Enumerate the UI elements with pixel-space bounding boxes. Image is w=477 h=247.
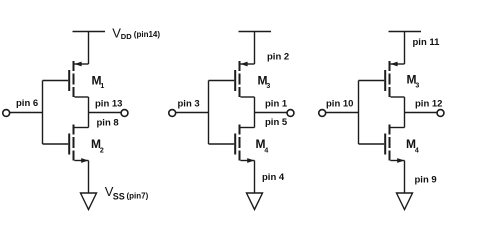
label M3 bbox=[258, 73, 271, 90]
ground symbol bbox=[397, 193, 413, 210]
label M4 (inverter 3) bbox=[406, 137, 419, 155]
input terminal circle bbox=[3, 110, 10, 117]
label M1 bbox=[92, 73, 105, 90]
wire drain junction (output node) bbox=[254, 97, 256, 128]
svg-text:pin 9: pin 9 bbox=[415, 175, 437, 186]
transistor M1 (PMOS) bbox=[43, 61, 89, 97]
svg-text:pin 5: pin 5 bbox=[265, 117, 288, 128]
wire drain junction (output node) bbox=[88, 97, 90, 128]
wire gate riser (joins both gates) bbox=[358, 81, 360, 145]
output terminal circle bbox=[121, 110, 128, 117]
input terminal circle bbox=[319, 110, 326, 117]
wire output node to output terminal bbox=[255, 112, 288, 114]
wire input terminal to gate riser bbox=[325, 112, 358, 114]
label VDD (pin14) bbox=[112, 26, 160, 41]
wire bottom transistor source to ground bbox=[88, 161, 90, 194]
svg-text:pin 6: pin 6 bbox=[16, 98, 38, 109]
wire gate riser (joins both gates) bbox=[208, 81, 210, 145]
svg-text:pin 1: pin 1 bbox=[265, 98, 288, 109]
output terminal circle bbox=[437, 110, 444, 117]
transistor M3 (PMOS) bbox=[209, 61, 255, 97]
wire VDD rail down to top transistor source bbox=[88, 32, 90, 65]
svg-text:2: 2 bbox=[100, 148, 104, 155]
wire VDD rail down to top transistor source bbox=[254, 32, 256, 65]
svg-text:4: 4 bbox=[264, 148, 268, 155]
svg-text:4: 4 bbox=[415, 148, 419, 155]
svg-text:3: 3 bbox=[415, 83, 419, 90]
wire input terminal to gate riser bbox=[175, 112, 208, 114]
wire VDD rail down to top transistor source bbox=[404, 32, 406, 65]
input terminal circle bbox=[169, 110, 176, 117]
transistor M3b (PMOS) bbox=[359, 61, 405, 97]
ground symbol bbox=[81, 193, 97, 210]
svg-text:SS: SS bbox=[113, 191, 125, 201]
wire bottom transistor source to ground bbox=[404, 161, 406, 194]
transistor M4b (NMOS) bbox=[359, 125, 405, 163]
svg-text:pin 10: pin 10 bbox=[326, 98, 353, 109]
label M2 bbox=[91, 137, 104, 155]
svg-text:pin 3: pin 3 bbox=[178, 98, 200, 109]
wire output node to output terminal bbox=[89, 112, 122, 114]
svg-text:pin 11: pin 11 bbox=[413, 37, 441, 48]
svg-text:pin 13: pin 13 bbox=[95, 98, 122, 109]
svg-text:pin 4: pin 4 bbox=[262, 172, 285, 183]
svg-text:pin 12: pin 12 bbox=[415, 98, 442, 109]
svg-text:pin 2: pin 2 bbox=[267, 52, 289, 63]
wire input terminal to gate riser bbox=[9, 112, 42, 114]
label M4 (inverter 2) bbox=[256, 137, 269, 155]
wire bottom transistor source to ground bbox=[254, 161, 256, 194]
label M3 (inverter 3) bbox=[407, 73, 420, 90]
svg-text:1: 1 bbox=[100, 83, 104, 90]
VDD rail bar (inverter 3) bbox=[389, 31, 422, 33]
VDD rail bar (inverter 2) bbox=[239, 31, 272, 33]
output terminal circle bbox=[287, 110, 294, 117]
svg-text:(pin7): (pin7) bbox=[127, 191, 149, 200]
wire output node to output terminal bbox=[405, 112, 438, 114]
svg-text:(pin14): (pin14) bbox=[134, 30, 161, 39]
wire gate riser (joins both gates) bbox=[42, 81, 44, 145]
svg-text:DD: DD bbox=[121, 32, 132, 41]
ground symbol bbox=[247, 193, 263, 210]
svg-text:pin 8: pin 8 bbox=[97, 117, 119, 128]
VDD rail bar (inverter 1) bbox=[73, 31, 106, 33]
svg-text:3: 3 bbox=[266, 83, 270, 90]
transistor M2 (NMOS) bbox=[43, 125, 89, 163]
wire drain junction (output node) bbox=[404, 97, 406, 128]
label VSS (pin7) bbox=[105, 184, 149, 201]
transistor M4 (NMOS) bbox=[209, 125, 255, 163]
